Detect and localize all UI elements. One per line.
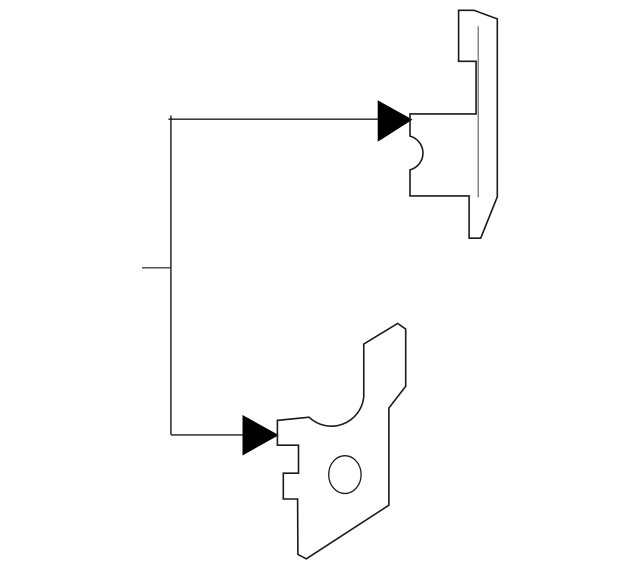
- arrowhead A2 (lower solid leader arrow): [243, 415, 279, 456]
- wire: bottom horizontal leader to lower arrow: [171, 434, 274, 436]
- arrowhead A1 (upper solid leader arrow): [378, 100, 413, 142]
- wire: short tick on left of vertical leader: [142, 267, 171, 269]
- part P1: upper bracket profile outline: [410, 10, 497, 238]
- wire: top horizontal leader to upper arrow: [168, 118, 408, 120]
- part P2: lower bracket profile outline: [277, 323, 405, 558]
- part P1 inner edge line (thin): [477, 26, 479, 197]
- part P2 circular hole: [329, 456, 361, 494]
- wire: vertical leader line: [170, 116, 172, 435]
